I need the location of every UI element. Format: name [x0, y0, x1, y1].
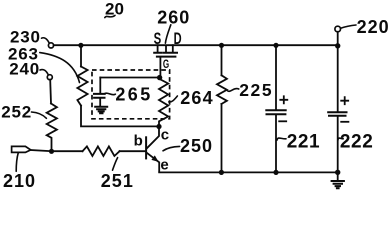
- MOSFET 260 bulk stub: [165, 46, 167, 51]
- wire gate node to capacitor 265: [100, 77, 159, 79]
- node input: [49, 149, 54, 154]
- terminal 220: [335, 17, 388, 37]
- ground: [332, 174, 344, 188]
- label 222: [338, 132, 374, 153]
- resistor R225: [217, 75, 227, 104]
- transistor Q250 collector: [147, 127, 159, 149]
- plus sign C221: [280, 96, 287, 103]
- svg-text:222: 222: [340, 132, 374, 153]
- node rail/220 corner: [335, 43, 340, 48]
- wire R225 to bottom rail: [221, 104, 223, 172]
- node bottom/R225: [219, 170, 224, 175]
- transistor Q250 base bar: [145, 137, 147, 158]
- svg-text:e: e: [160, 157, 168, 174]
- wire 210 to node: [31, 150, 52, 151]
- svg-text:b: b: [134, 133, 143, 150]
- node bottom/ground: [335, 170, 340, 175]
- wire 220 to rail: [337, 32, 339, 45]
- wire rail to resistor 263: [80, 47, 82, 67]
- terminal 230: [10, 28, 54, 48]
- label 251: [101, 158, 134, 191]
- capacitor C265: [94, 78, 105, 106]
- terminal 240: [9, 60, 52, 80]
- svg-text:265: 265: [115, 84, 152, 104]
- svg-text:225: 225: [239, 80, 273, 100]
- resistor R252: [47, 104, 57, 149]
- label 20: [105, 0, 124, 18]
- MOSFET 260 source stub: [157, 45, 159, 51]
- minus sign C222: [341, 121, 348, 123]
- bottom rail: [159, 171, 338, 173]
- minus sign C221: [279, 120, 286, 122]
- terminal 210: [3, 146, 36, 190]
- label 221: [277, 132, 320, 153]
- svg-text:264: 264: [180, 88, 214, 108]
- node gate: [157, 75, 162, 80]
- MOSFET 260 drain stub: [172, 45, 174, 51]
- svg-text:c: c: [161, 126, 169, 143]
- gate lead wire: [159, 58, 161, 78]
- label 265: [105, 84, 153, 104]
- node rail/C221: [273, 43, 278, 48]
- MOSFET 260 channel segments: [154, 52, 177, 54]
- plus sign C222: [341, 97, 348, 104]
- node collector: [156, 124, 161, 129]
- svg-text:251: 251: [101, 171, 134, 190]
- svg-text:240: 240: [9, 60, 40, 79]
- node rail/R225: [219, 43, 224, 48]
- wire resistor to collector node: [81, 106, 159, 127]
- svg-text:252: 252: [1, 103, 32, 122]
- label 252: [1, 103, 46, 122]
- resistor R264: [159, 79, 168, 126]
- svg-text:250: 250: [180, 136, 213, 156]
- capacitor C221: [266, 47, 285, 172]
- svg-text:S: S: [154, 30, 162, 48]
- ground (inside box): [95, 107, 107, 113]
- svg-text:260: 260: [157, 7, 190, 27]
- svg-text:221: 221: [287, 132, 321, 153]
- node bottom/C221: [273, 170, 278, 175]
- MOSFET 260 gate bar: [157, 56, 176, 58]
- transistor Q250 emitter: [147, 153, 159, 172]
- wire R251 to base: [120, 150, 146, 152]
- label 225: [228, 80, 274, 100]
- svg-text:210: 210: [3, 171, 36, 190]
- label 250: [163, 136, 213, 156]
- svg-text:G: G: [163, 57, 169, 71]
- top rail: [54, 44, 338, 46]
- label 264: [169, 88, 214, 108]
- svg-text:220: 220: [357, 17, 388, 37]
- capacitor C222: [328, 46, 346, 173]
- resistor R251: [83, 146, 120, 156]
- label 260: [157, 7, 190, 43]
- wire 240 to R252: [49, 80, 52, 104]
- dashed box 265: [92, 70, 170, 119]
- svg-text:D: D: [174, 30, 182, 48]
- resistor (pointed by 263): [77, 67, 87, 106]
- wire node to R251: [52, 150, 83, 152]
- label 263: [8, 44, 80, 82]
- emitter arrowhead: [151, 155, 158, 162]
- wire rail to R225: [221, 47, 223, 75]
- node rail/R263: [78, 43, 83, 48]
